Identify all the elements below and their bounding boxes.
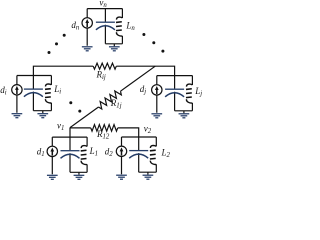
ground (below current source d_n) <box>82 46 93 51</box>
inductor L_2 <box>150 137 156 172</box>
svg-text:L1: L1 <box>89 146 98 158</box>
wire top rail node 2 <box>122 136 157 138</box>
current source d_2 <box>116 137 126 174</box>
ground (below LC tank n) <box>109 46 120 51</box>
wire bottom (cell 2) <box>139 172 157 174</box>
resistor R_12 <box>91 125 118 132</box>
wire diagonal R_1j to v_j junction <box>121 66 156 91</box>
resistor R_ij <box>93 63 116 69</box>
ground (below current source d_1) <box>47 175 58 180</box>
capacitor (cell i) <box>24 76 43 111</box>
current source d_i <box>12 76 22 113</box>
wire top rail node j <box>157 75 193 77</box>
svg-text:R1j: R1j <box>110 98 122 110</box>
wire diagonal v_1 junction to R_1j <box>70 107 99 128</box>
wire bottom (cell i) <box>33 111 51 113</box>
svg-text:Li: Li <box>53 84 61 96</box>
wire top rail node 1 <box>52 136 87 138</box>
wire bottom (cell n) <box>105 44 122 46</box>
ground (below LC tank 1) <box>74 175 85 180</box>
wire tap from node v_i up to coupling row <box>33 66 93 75</box>
current source d_j <box>152 76 162 113</box>
svg-text:dj: dj <box>140 84 147 96</box>
ellipsis dots (right, between cell n and cell j) <box>142 33 164 53</box>
inductor L_j <box>186 76 192 111</box>
inductor L_1 <box>81 137 87 172</box>
svg-text:L2: L2 <box>161 148 171 160</box>
capacitor (cell j) <box>165 76 184 111</box>
svg-text:v1: v1 <box>57 121 64 133</box>
wire R_12 to node v_2 with drop <box>118 128 139 137</box>
ellipsis dots (between cell i and cell 1) <box>69 101 81 112</box>
inductor L_i <box>45 76 51 111</box>
svg-text:vn: vn <box>99 0 107 9</box>
current source d_1 <box>47 137 57 174</box>
capacitor (cell n) <box>96 9 115 44</box>
wire from R_ij to node v_j with drop <box>116 66 174 75</box>
ground (below current source d_i) <box>12 113 23 118</box>
svg-text:Ln: Ln <box>125 21 135 32</box>
current source d_n <box>82 9 92 46</box>
svg-text:R12: R12 <box>96 129 110 141</box>
wire top rail node i <box>17 75 52 77</box>
ground (below LC tank 2) <box>143 175 154 180</box>
ground (below LC tank i) <box>37 113 48 118</box>
capacitor (cell 1) <box>61 137 80 172</box>
svg-text:d2: d2 <box>105 146 114 158</box>
resistor R_1j (diagonal) <box>99 91 122 109</box>
node v_1 junction wire down to rail <box>69 128 71 138</box>
svg-text:d1: d1 <box>37 147 45 159</box>
svg-text:dn: dn <box>71 20 80 32</box>
wire top rail node n <box>87 8 122 10</box>
wire v_1 junction to R_12 <box>70 127 91 129</box>
ellipsis dots (left, between cell i and cell n) <box>48 34 66 54</box>
ground (below current source d_2) <box>116 175 127 180</box>
svg-text:Rij: Rij <box>96 69 106 81</box>
svg-text:di: di <box>0 85 7 97</box>
svg-text:v2: v2 <box>144 124 152 136</box>
ground (below LC tank j) <box>179 113 190 118</box>
svg-text:Lj: Lj <box>194 86 202 98</box>
inductor L_n <box>116 9 122 44</box>
capacitor (cell 2) <box>129 137 148 172</box>
wire bottom (cell 1) <box>70 172 87 174</box>
ground (below current source d_j) <box>151 113 162 118</box>
wire bottom (cell j) <box>175 111 193 113</box>
